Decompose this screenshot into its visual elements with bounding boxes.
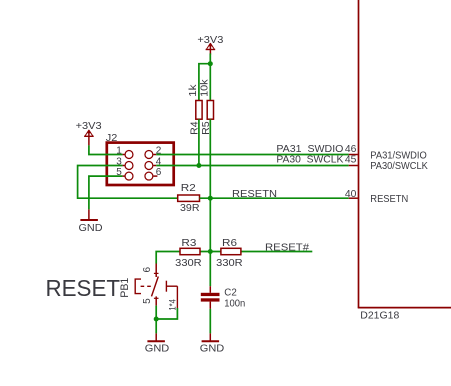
resistor R3 body bbox=[180, 248, 200, 254]
svg-text:RESETN: RESETN bbox=[370, 194, 408, 205]
chip pin 45 stub bbox=[349, 165, 358, 167]
svg-text:5: 5 bbox=[116, 167, 122, 178]
J2 pin 5 (stub, circle, number) bbox=[116, 167, 133, 180]
wire +3V3 stem down to junction bbox=[209, 53, 211, 63]
svg-text:PA30/SWCLK: PA30/SWCLK bbox=[370, 161, 428, 172]
svg-text:330R: 330R bbox=[216, 258, 243, 269]
wire +3V3 (left) to J2 pin 1 bbox=[89, 145, 123, 154]
wire C2 bottom to GND bbox=[209, 309, 211, 334]
svg-text:100n: 100n bbox=[224, 298, 245, 309]
pushbutton PB1 pin 6 (top pin with tick) bbox=[142, 264, 159, 278]
ground GND (left) bbox=[79, 209, 103, 234]
svg-text:40: 40 bbox=[345, 188, 357, 200]
junction R5 / RESETN bbox=[208, 196, 213, 201]
svg-text:6: 6 bbox=[142, 267, 153, 273]
svg-text:R3: R3 bbox=[181, 238, 196, 249]
J2 pin 1 (stub, circle, number) bbox=[116, 145, 133, 158]
resistor R5 body bbox=[207, 101, 213, 120]
svg-text:1k: 1k bbox=[188, 83, 199, 97]
svg-text:D21G18: D21G18 bbox=[360, 310, 399, 321]
connector J2 body bbox=[107, 143, 174, 185]
svg-text:39R: 39R bbox=[180, 203, 200, 214]
wire R5 bottom to RESETN junction bbox=[209, 119, 211, 198]
capacitor C2 bbox=[201, 286, 220, 309]
wire junction to R4 top bbox=[199, 64, 210, 101]
svg-text:GND: GND bbox=[79, 222, 103, 234]
chip pin 46 stub bbox=[349, 154, 358, 156]
svg-text:R2: R2 bbox=[181, 183, 196, 194]
junction PB1 / 1*4 / GND bbox=[154, 317, 159, 322]
svg-text:J2: J2 bbox=[106, 133, 118, 144]
svg-text:RESETN: RESETN bbox=[232, 189, 277, 200]
J2 pin 6 (stub, circle, number) bbox=[145, 167, 162, 180]
chip pin 40 stub bbox=[349, 197, 358, 199]
svg-text:3: 3 bbox=[116, 156, 122, 167]
svg-text:5: 5 bbox=[142, 298, 153, 304]
wire PB1 top to R3 left bbox=[156, 252, 180, 264]
wire R4 bottom to SWCLK junction bbox=[198, 119, 200, 165]
J2 pin 4 (stub, circle, number) bbox=[145, 156, 162, 169]
svg-text:45: 45 bbox=[345, 154, 357, 166]
wire junction down to C2 top bbox=[209, 252, 211, 287]
pushbutton PB1 actuator bracket bbox=[135, 279, 151, 294]
wire J2 pin 5 to GND (left) bbox=[89, 176, 123, 209]
ground GND (under C2) bbox=[200, 333, 225, 354]
wire R3 right to R6 left bbox=[200, 251, 221, 253]
wire RESETN junction down to R3/R6 row bbox=[209, 198, 211, 251]
junction +3V3 / R4 / R5 bbox=[208, 61, 213, 66]
ground GND (under PB1) bbox=[145, 333, 170, 354]
junction R4 / SWCLK bbox=[196, 163, 201, 168]
wire/net RESET# from R6 right bbox=[241, 251, 312, 253]
junction R3 / R6 / C2 bbox=[208, 249, 213, 254]
wire/net RESETN from R2 to chip pin 40 bbox=[200, 197, 349, 199]
svg-text:RESET: RESET bbox=[46, 275, 121, 301]
wire J2 pin 3 to R2 left bbox=[78, 166, 178, 199]
power +3V3 (top) bbox=[197, 35, 223, 55]
svg-text:R6: R6 bbox=[222, 238, 237, 249]
svg-text:GND: GND bbox=[200, 343, 225, 355]
svg-text:RESET#: RESET# bbox=[265, 243, 309, 254]
wire PB1 pin 5 down to GND bbox=[155, 306, 157, 334]
wire junction to R5 top bbox=[209, 64, 211, 101]
svg-text:6: 6 bbox=[156, 167, 162, 178]
J2 pin 2 (stub, circle, number) bbox=[145, 145, 162, 158]
svg-text:PB1: PB1 bbox=[119, 278, 131, 298]
svg-text:10k: 10k bbox=[199, 78, 210, 97]
svg-text:1: 1 bbox=[116, 145, 122, 156]
resistor R6 body bbox=[221, 248, 241, 254]
pushbutton PB1 contact 1*4 bbox=[166, 281, 178, 311]
svg-text:GND: GND bbox=[145, 343, 170, 355]
J2 pin 3 (stub, circle, number) bbox=[116, 156, 133, 169]
wire contact 1*4 to junction bbox=[156, 308, 177, 319]
resistor R4 body bbox=[196, 101, 202, 120]
IC U1 (SAMD21G18) left and bottom edge bbox=[358, 0, 451, 308]
pushbutton PB1 switch blade bbox=[152, 277, 159, 297]
power +3V3 (left) bbox=[76, 121, 102, 145]
resistor R2 body bbox=[178, 195, 200, 201]
svg-text:PA31/SWDIO: PA31/SWDIO bbox=[370, 150, 427, 161]
svg-text:330R: 330R bbox=[175, 258, 202, 269]
svg-text:PA30 SWCLK: PA30 SWCLK bbox=[276, 154, 343, 166]
wire/net PA30_SWCLK from J2 pin 4 to chip pin 45 bbox=[156, 165, 349, 167]
pushbutton PB1 pin 5 (bottom pin with tick) bbox=[142, 296, 159, 305]
svg-text:C2: C2 bbox=[224, 287, 237, 298]
wire/net PA31_SWDIO from J2 pin 2 to chip pin 46 bbox=[156, 154, 349, 156]
